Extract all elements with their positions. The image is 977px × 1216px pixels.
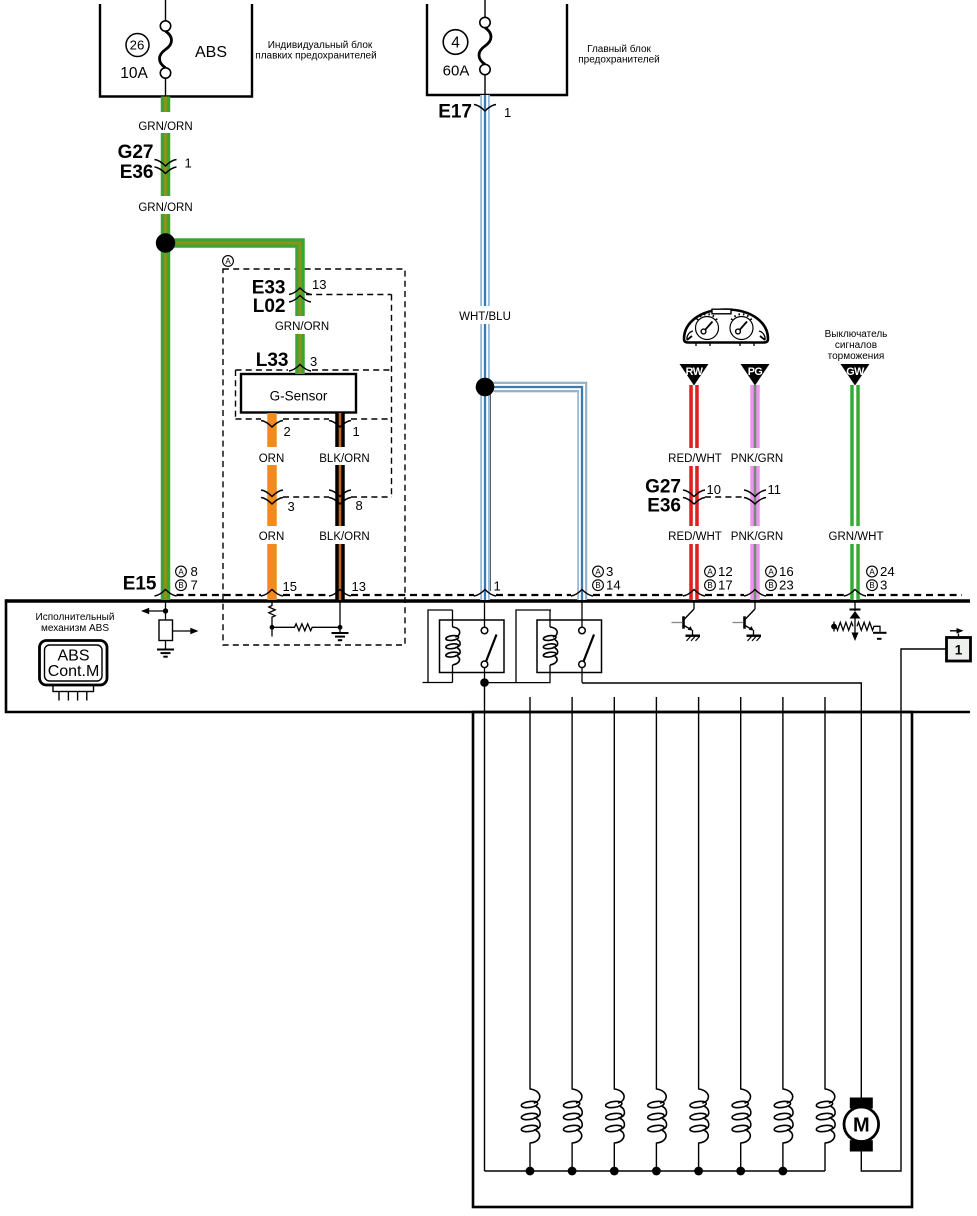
pin label A8: [176, 566, 187, 577]
svg-text:60A: 60A: [443, 63, 470, 80]
svg-text:G27: G27: [118, 142, 154, 163]
ground (E15 circuit): [157, 650, 174, 657]
bus chevron pins A16/B23 (PNK/GRN): [744, 590, 766, 597]
wire solenoid L6: [740, 697, 742, 1171]
svg-text:GRN/ORN: GRN/ORN: [275, 321, 329, 333]
svg-text:GRN/WHT: GRN/WHT: [829, 531, 884, 543]
pin label B3: [867, 580, 878, 591]
svg-text:23: 23: [779, 578, 794, 593]
svg-text:1: 1: [955, 643, 963, 658]
svg-text:торможения: торможения: [828, 351, 885, 362]
gauge cluster icon: [684, 309, 768, 346]
svg-text:L33: L33: [256, 350, 289, 371]
svg-text:3: 3: [310, 354, 317, 369]
G-sensor dashed enclosure: [236, 370, 392, 419]
svg-text:RW: RW: [686, 366, 704, 378]
solenoid coil L7: [774, 1089, 793, 1143]
resistor R3 (to pin 13 ground): [272, 624, 340, 631]
arrow to internal circuit (right): [173, 630, 192, 632]
wire WHT/BLU: [481, 95, 586, 600]
svg-text:Индивидуальный блок: Индивидуальный блок: [268, 39, 373, 51]
svg-text:1: 1: [185, 156, 192, 171]
svg-text:15: 15: [283, 579, 297, 594]
svg-text:BLK/ORN: BLK/ORN: [319, 453, 370, 465]
svg-text:плавких предохранителей: плавких предохранителей: [255, 51, 376, 62]
svg-text:GRN/ORN: GRN/ORN: [138, 121, 192, 133]
bus chevron pins A3/B14 (WHT/BLU relay 2): [571, 590, 593, 597]
wire diode to node: [854, 619, 856, 634]
junction dot E15 input: [163, 608, 168, 613]
solenoid coil L8: [816, 1089, 835, 1143]
svg-text:8: 8: [356, 498, 363, 513]
wire BLK/ORN (G-sensor pin1): [335, 413, 345, 600]
wire motor to terminal 1: [861, 649, 946, 1171]
svg-text:RED/WHT: RED/WHT: [668, 531, 722, 543]
svg-text:3: 3: [880, 578, 887, 593]
inline connector chevrons 3/8: [261, 490, 283, 497]
G-Sensor box: [241, 374, 356, 413]
wire ORN (G-sensor pin2): [267, 413, 277, 600]
svg-text:GRN/ORN: GRN/ORN: [138, 202, 192, 214]
pin label B7: [176, 580, 187, 591]
wire relay K1 to relay K2 coil: [485, 610, 552, 683]
dashed connector line from E33/L02: [306, 294, 392, 296]
wire RED/WHT: [689, 385, 699, 600]
wire solenoid L4: [655, 697, 657, 1171]
solenoid coil L6: [732, 1089, 751, 1143]
fuse block 1 (individual fuse box): [100, 4, 252, 97]
junction dot green: [156, 233, 175, 252]
bus chevron pin 1 (WHT/BLU relay 1): [474, 590, 496, 597]
junction dot relay K1: [480, 678, 489, 687]
svg-text:ORN: ORN: [259, 453, 285, 465]
svg-text:26: 26: [130, 38, 145, 53]
svg-text:10: 10: [707, 482, 721, 497]
svg-text:E17: E17: [438, 102, 472, 123]
svg-text:10A: 10A: [120, 65, 148, 82]
resistor R2 (pin 15 pull-down): [269, 601, 275, 637]
svg-text:3: 3: [288, 499, 295, 514]
svg-text:G-Sensor: G-Sensor: [270, 389, 328, 404]
pin label A16: [766, 566, 777, 577]
dashed link G27/E36 red-pink: [705, 496, 744, 498]
ground (brake switch input): [873, 632, 887, 634]
solenoid coil L4: [647, 1089, 666, 1143]
connector bus dashed line at y=592: [177, 594, 963, 596]
svg-text:ABS: ABS: [195, 44, 227, 61]
connector E15 chevron at bus (GRN/ORN): [155, 590, 177, 597]
svg-text:G27: G27: [645, 477, 681, 498]
wire solenoid L1: [529, 697, 531, 1171]
relay K1 (valve relay): [440, 601, 505, 683]
circled 26: [126, 34, 149, 57]
svg-text:механизм ABS: механизм ABS: [41, 623, 109, 634]
circled 4: [443, 30, 468, 55]
svg-text:ORN: ORN: [259, 531, 285, 543]
solenoid coil L3: [605, 1089, 624, 1143]
bus chevron pins A24/B3 (GRN/WHT): [844, 590, 866, 597]
svg-text:13: 13: [352, 579, 366, 594]
junction dot L2: [568, 1167, 577, 1176]
junction dot R2/R3: [270, 625, 275, 630]
wire: fuse1 top lead: [165, 0, 167, 21]
solenoid coil L2: [563, 1089, 582, 1143]
wire GRN/ORN main vertical (fuse1 to bus): [161, 97, 171, 601]
svg-text:ABS: ABS: [57, 648, 89, 665]
arrow to internal circuit (left): [148, 610, 166, 612]
svg-text:PG: PG: [748, 366, 763, 378]
ABS Cont.M module: [40, 641, 108, 701]
wire to ground: [165, 641, 167, 650]
wire solenoid L5: [698, 697, 700, 1171]
pin label A3: [593, 566, 604, 577]
connector E33/L02 chevrons: [289, 288, 311, 295]
pump motor M: [850, 1098, 873, 1109]
svg-text:E15: E15: [123, 574, 157, 595]
inline connector chevrons 10/11 (G27/E36): [683, 490, 705, 497]
junction dot blue: [476, 378, 495, 397]
svg-text:WHT/BLU: WHT/BLU: [459, 311, 511, 323]
wire solenoid common bus: [485, 1170, 826, 1172]
svg-text:E36: E36: [120, 162, 154, 183]
wire: fuse2 top lead: [484, 0, 486, 17]
junction dot L5: [694, 1167, 703, 1176]
junction dot L3: [610, 1167, 619, 1176]
fuse 26 symbol: [160, 21, 172, 78]
dashed riser down to 3/8 connector: [391, 295, 393, 498]
svg-text:PNK/GRN: PNK/GRN: [731, 531, 783, 543]
svg-text:1: 1: [504, 105, 511, 120]
junction dot ground node: [338, 625, 343, 630]
solenoid coil L5: [690, 1089, 709, 1143]
wire solenoid L8: [824, 697, 826, 1171]
connector triangle PG: [741, 364, 770, 386]
resistor R4 (left): [834, 622, 853, 630]
connector triangle GW: [841, 364, 870, 386]
circled A marker: [223, 256, 234, 267]
svg-text:предохранителей: предохранителей: [578, 55, 660, 66]
junction dot L6: [736, 1167, 745, 1176]
relay K2 (motor relay): [537, 601, 602, 683]
solenoid coil L1: [521, 1089, 540, 1143]
svg-text:14: 14: [606, 578, 621, 593]
ABS hydraulic unit box (solid): [6, 599, 970, 602]
svg-text:13: 13: [312, 277, 326, 292]
arrow to internal circuit (down): [852, 633, 859, 642]
svg-text:PNK/GRN: PNK/GRN: [731, 453, 783, 465]
svg-text:2: 2: [284, 424, 291, 439]
svg-text:4: 4: [451, 35, 460, 52]
wire relay K1 coil wrap: [423, 610, 453, 683]
pump/solenoid lower box: [473, 712, 912, 1207]
G-sensor pin chevrons 2/1: [261, 421, 283, 428]
svg-text:BLK/ORN: BLK/ORN: [319, 531, 370, 543]
svg-text:1: 1: [494, 579, 501, 594]
svg-text:E36: E36: [647, 496, 681, 517]
wire relay1 contact to solenoid common bus: [484, 683, 486, 1171]
wire relay K2 coil bottom rail: [516, 682, 551, 684]
pin label A24: [867, 566, 878, 577]
wire: thin black offset lines of WHT/BLU branch: [489, 392, 491, 591]
diode D1 (cathode bar): [850, 609, 861, 611]
terminal node (left): [833, 622, 835, 632]
wire solenoid L3: [613, 697, 615, 1171]
transistor Q1 (RED/WHT): [672, 601, 701, 641]
connector L33 chevron: [289, 365, 311, 372]
svg-text:Cont.M: Cont.M: [48, 663, 100, 680]
fuse 4 symbol: [479, 17, 491, 74]
bus chevron pin 13 (BLK/ORN): [329, 590, 351, 597]
wire relay2 contact to pump motor: [582, 683, 861, 1098]
wire GRN/WHT: [850, 385, 860, 600]
wire PNK/GRN: [750, 385, 760, 600]
svg-text:M: M: [853, 1114, 870, 1136]
pin label B23: [766, 580, 777, 591]
svg-text:сигналов: сигналов: [835, 340, 877, 351]
wire GRN/ORN branch to G-sensor: [166, 243, 301, 316]
resistor R1 (E15 input): [159, 620, 173, 641]
junction dot L1: [526, 1167, 535, 1176]
bus chevron pins A12/B17 (RED/WHT): [683, 590, 705, 597]
svg-text:11: 11: [768, 482, 782, 497]
connector G27/E36 chevrons (green): [155, 160, 177, 167]
terminal 1 box: [947, 628, 971, 661]
connector E17 chevron: [474, 105, 496, 112]
fuse block 2 (main fuse box): [427, 4, 567, 95]
wire solenoid L2: [571, 697, 573, 1171]
pin label B17: [705, 580, 716, 591]
svg-text:Главный блок: Главный блок: [587, 43, 651, 55]
wire solenoid L7: [782, 697, 784, 1171]
svg-text:L02: L02: [253, 296, 286, 317]
svg-text:1: 1: [353, 424, 360, 439]
svg-text:17: 17: [718, 578, 733, 593]
svg-text:RED/WHT: RED/WHT: [668, 453, 722, 465]
junction dot L4: [652, 1167, 661, 1176]
transistor Q2 (PNK/GRN): [733, 601, 762, 641]
outer dashed box A (G-sensor harness): [223, 269, 405, 645]
wire pin 13 to ground: [339, 601, 341, 633]
pin label B14: [593, 580, 604, 591]
svg-text:Выключатель: Выключатель: [825, 329, 888, 340]
svg-text:Исполнительный: Исполнительный: [36, 612, 115, 623]
pin label A12: [705, 566, 716, 577]
bus chevron pin 15 (ORN): [261, 590, 283, 597]
junction dot L7: [779, 1167, 788, 1176]
connector triangle RW: [680, 364, 709, 386]
svg-text:7: 7: [191, 578, 198, 593]
wire brake-switch input lead: [854, 601, 856, 611]
resistor R5 (right): [857, 622, 880, 632]
svg-text:GW: GW: [846, 366, 865, 378]
wire E15 input lead: [165, 601, 167, 620]
